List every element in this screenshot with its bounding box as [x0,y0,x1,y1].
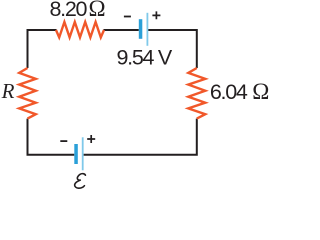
resistor R3 6.04 ohm (right, vertical zigzag) [188,68,205,119]
wire top-right segment: battery V1 to corner, down to R3 top [148,29,198,68]
battery E minus sign [60,140,67,142]
svg-text:Ω: Ω [252,79,269,104]
resistor R1 8.20 ohm (top, horizontal zigzag) [56,22,104,37]
svg-text:Ω: Ω [89,0,106,21]
resistor R (left, vertical zigzag) [19,68,36,119]
svg-text:6.04: 6.04 [210,80,248,104]
wire bottom-left segment: battery E to corner, up to resistor R bottom [27,119,75,156]
svg-text:8.20: 8.20 [50,0,88,21]
svg-text:9.54 V: 9.54 V [117,45,173,69]
wire top-left segment: left side up and across to resistor R1 [27,30,57,68]
label script E (emf) [75,174,86,189]
battery E plus sign [87,135,95,143]
wire top-mid segment: between resistor R1 and battery V1 [104,29,139,31]
wire bottom-right segment: R3 bottom to corner, across to battery E [84,119,198,156]
battery V1 negative plate (thick short left bar) [139,19,143,39]
svg-text:R: R [1,79,15,103]
battery E negative plate (thick short left bar) [74,144,78,164]
battery E positive plate (thin tall right bar) [82,137,84,170]
battery V1 plus sign [152,11,160,19]
battery V1 minus sign [124,16,131,18]
battery V1 positive plate (thin tall right bar) [147,13,149,46]
